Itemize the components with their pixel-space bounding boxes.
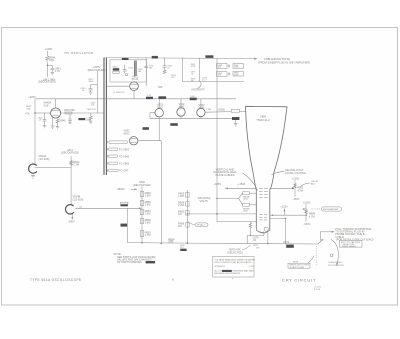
wire accel to astig: [270, 215, 307, 216]
wire CRT cathode drop: [267, 231, 269, 244]
node date code: [314, 287, 322, 292]
wire left vertical to V814A: [34, 99, 36, 164]
tube V845A: [44, 101, 61, 118]
wire HV output: [205, 111, 231, 114]
node external supply note: [335, 227, 373, 241]
potentiometer R868 ASTIG: [303, 200, 316, 226]
svg-text:TO V842: TO V842: [119, 154, 130, 158]
svg-text:4.7K: 4.7K: [55, 69, 61, 73]
wire cathode to C872: [270, 218, 287, 245]
svg-text:10M: 10M: [168, 240, 173, 244]
svg-text:6U8: 6U8: [44, 103, 49, 107]
svg-text:1.5M: 1.5M: [178, 194, 184, 198]
wire output right: [61, 112, 104, 114]
node title TYPE 564A: [30, 278, 82, 282]
svg-text:+3500: +3500: [218, 107, 226, 111]
wire junction bus left: [128, 242, 188, 245]
node +125V astig feed: [280, 204, 288, 215]
svg-text:-150V: -150V: [303, 222, 310, 226]
potentiometer HV ADJ callout: [188, 222, 208, 227]
node diagram ref mark: [232, 278, 234, 281]
oscillator tank box: [110, 60, 146, 82]
inductor L841: [43, 62, 55, 82]
svg-text:82K: 82K: [49, 58, 54, 62]
switch SW870 arm: [318, 239, 323, 244]
svg-text:C866: C866: [207, 109, 212, 111]
svg-text:(REAR PANEL): (REAR PANEL): [342, 245, 357, 248]
node TA arrow: [25, 106, 36, 115]
svg-text:T5640-31-2: T5640-31-2: [256, 118, 270, 122]
svg-text:5642: 5642: [199, 106, 205, 110]
svg-text:C846 250: C846 250: [87, 109, 97, 111]
svg-text:.01: .01: [252, 238, 256, 242]
wire CRT grid line vertical: [216, 58, 218, 222]
wire bottom bus: [187, 242, 317, 245]
inductor L846: [64, 108, 75, 114]
capacitor C813: [81, 85, 98, 92]
svg-text:+ 150: + 150: [77, 207, 83, 209]
node +325V decoupled osc feed: [88, 65, 106, 72]
resistor R813 label: [89, 79, 95, 83]
svg-text:+125V: +125V: [303, 200, 311, 204]
svg-text:3.9M: 3.9M: [145, 203, 151, 207]
resistor chain R840: [140, 187, 151, 243]
node bar above V832: [143, 127, 149, 130]
svg-text:.001: .001: [218, 67, 222, 69]
capacitor C862 box: [207, 109, 246, 112]
wire grid left: [35, 112, 50, 114]
svg-text:560K: 560K: [89, 81, 94, 83]
svg-text:56V2: 56V2: [124, 132, 131, 136]
wire cathode down: [133, 91, 135, 99]
node unblanking text: [258, 57, 310, 64]
node -150V label: [68, 214, 75, 223]
svg-text:ACCEL COATING: ACCEL COATING: [285, 171, 306, 175]
CRT grid dashes: [259, 188, 268, 197]
svg-text:+325V: +325V: [28, 95, 36, 99]
wire HV secondary rail: [104, 98, 236, 100]
svg-text:R810: R810: [113, 66, 119, 68]
node power switch circle: [328, 254, 345, 267]
svg-text:PLATE CABLES: PLATE CABLES: [216, 173, 235, 177]
svg-text:HV OSCILLATOR: HV OSCILLATOR: [65, 51, 94, 55]
tube V812: [130, 74, 139, 90]
svg-text:3.9M: 3.9M: [145, 221, 151, 225]
CRT V859 envelope: [246, 106, 288, 230]
svg-text:(1.2BV P-P): (1.2BV P-P): [114, 92, 125, 94]
svg-text:(SCALE ILLUM): (SCALE ILLUM): [289, 266, 304, 269]
CRT deflection plate dashes: [259, 215, 267, 220]
svg-text:(DECOUPLED): (DECOUPLED): [61, 151, 79, 155]
svg-text:(FOR DETAILS SEE CKT DIAG): (FOR DETAILS SEE CKT DIAG): [336, 237, 374, 241]
svg-text:TO V862: TO V862: [119, 162, 130, 166]
tube V814B: [65, 195, 83, 214]
svg-text:READINGS MAY VARY: READINGS MAY VARY: [233, 270, 255, 273]
svg-text:(SELECTED): (SELECTED): [227, 250, 243, 254]
wire V814B output: [75, 207, 140, 209]
wire grid entry: [217, 221, 256, 223]
ground: [89, 92, 93, 94]
node -3500V arrow: [117, 187, 138, 191]
svg-text:3.9M: 3.9M: [145, 212, 151, 216]
inductor L812 bar: [78, 117, 90, 121]
svg-text:A: A: [172, 277, 174, 281]
wire first anode feed: [214, 182, 257, 189]
capacitor C808 box: [217, 64, 230, 69]
resistor R808 box: [217, 72, 230, 77]
wire divider: [181, 58, 183, 82]
svg-text:470K: 470K: [234, 67, 239, 69]
node HV OSCILLATOR title: [65, 51, 94, 55]
wire unblanking arrowhead: [254, 58, 257, 60]
svg-text:1434: 1434: [190, 96, 194, 98]
CRT base: [256, 227, 270, 233]
node deflection note text: [213, 167, 237, 177]
tube V814A: [29, 154, 50, 173]
node winding bar T801: [170, 123, 178, 126]
wire C840 vertical: [127, 208, 129, 242]
svg-text:INTENSITY: INTENSITY: [214, 266, 225, 268]
svg-text:V859: V859: [260, 115, 267, 119]
svg-text:CRT CIRCUIT: CRT CIRCUIT: [282, 277, 316, 282]
svg-text:CCW: CCW: [249, 266, 254, 268]
svg-text:WITH CONTROLS SET AS INDICATED: WITH CONTROLS SET AS INDICATED:: [214, 261, 252, 264]
svg-text:1.42: 1.42: [147, 95, 151, 97]
svg-text:+325V: +325V: [214, 182, 222, 186]
svg-text:(1/2 6U8): (1/2 6U8): [73, 197, 84, 201]
resistor R809 box: [233, 71, 243, 76]
wire cathode branches: [52, 117, 54, 124]
node graticule lamp box E879: [288, 256, 314, 269]
node geom callout: [301, 181, 318, 186]
svg-text:(DECOUPLED): (DECOUPLED): [88, 68, 106, 72]
wire divider: [199, 58, 201, 82]
ground: [56, 124, 60, 129]
potentiometer R861 GEOM: [291, 176, 304, 200]
svg-text:(FROM SWEEP PLUG-IN UNIT AMPLI: (FROM SWEEP PLUG-IN UNIT AMPLIFIER): [258, 60, 310, 64]
wire top unblanking bus: [104, 58, 255, 59]
tube V832: [124, 129, 138, 145]
resistor R862 bar: [232, 117, 239, 124]
node title CRT CIRCUIT: [282, 277, 316, 282]
svg-text:(DECOUPLED): (DECOUPLED): [38, 80, 56, 84]
tube V852: [155, 99, 164, 117]
node cathode box: [340, 240, 363, 248]
svg-text:470K: 470K: [234, 75, 239, 77]
capacitor C840 bar lower: [121, 224, 128, 227]
wire focus electrode line: [187, 213, 257, 214]
node plate voltage text: [198, 196, 211, 203]
resistor chain R860 divider: [178, 190, 189, 244]
svg-text:(DECOUPLED): (DECOUPLED): [133, 183, 151, 187]
heater winding row 3: [107, 154, 130, 158]
svg-text:-150V: -150V: [293, 197, 300, 201]
svg-text:TO V852: TO V852: [119, 147, 130, 151]
node +325V rail label: [28, 95, 36, 99]
wire deflection lead curve: [243, 173, 258, 191]
svg-text:56K: 56K: [27, 108, 31, 110]
capacitor C847 label: [91, 102, 97, 106]
node intensity leader: [198, 81, 202, 89]
node winding bar: [159, 96, 167, 99]
resistor R814: [70, 160, 80, 167]
ground: [234, 124, 238, 126]
note block: [114, 252, 156, 264]
wire V814A output: [35, 167, 72, 169]
svg-text:-3500V: -3500V: [117, 187, 126, 191]
ground: [43, 126, 47, 128]
svg-text:1M: 1M: [178, 224, 182, 228]
node decoupled label: [38, 80, 56, 84]
node T801 terminal bar: [205, 55, 213, 58]
svg-text:2.2M: 2.2M: [178, 203, 184, 207]
capacitor C870: [252, 236, 259, 243]
ground: [31, 173, 35, 178]
wire +325V rail: [35, 98, 104, 100]
svg-text:36-42: 36-42: [132, 77, 139, 81]
resistor R854 label: [168, 237, 175, 243]
node aquadag leader text: [272, 168, 306, 175]
node voltage readings table: [213, 257, 256, 278]
node +4500 label: [237, 182, 246, 186]
node winding bar: [146, 95, 153, 99]
heater winding row 2: [107, 147, 130, 151]
resistor R871 label: [253, 245, 260, 249]
resistor R858A: [243, 192, 257, 201]
svg-text:BETWEEN INSTRUMENTS: BETWEEN INSTRUMENTS: [214, 273, 240, 275]
capacitor C811 branch: [144, 58, 154, 86]
svg-text:OF PARTS MARKED: OF PARTS MARKED: [117, 260, 142, 264]
svg-text:180K: 180K: [243, 211, 248, 213]
resistor R840 bar: [122, 58, 129, 60]
capacitor C809 box: [233, 64, 243, 69]
svg-text:1M: 1M: [191, 81, 194, 83]
wire osc feed vertical: [96, 71, 98, 113]
svg-text:L846 680: L846 680: [64, 108, 75, 112]
resistor R845: [56, 117, 66, 124]
svg-text:R845: R845: [60, 119, 67, 123]
resistor R846: [87, 109, 97, 123]
inductor L840 label: [133, 180, 151, 187]
wire plate bracket: [216, 193, 242, 205]
resistor R870 bar: [283, 240, 294, 248]
wire V832 output: [138, 141, 162, 245]
switch rotation arc: [331, 240, 338, 267]
node +125V decoupled feed: [45, 47, 53, 51]
tube V842: [177, 99, 185, 116]
svg-text:ADJ: ADJ: [311, 183, 315, 186]
node +3500V label: [218, 107, 226, 111]
resistor R858B: [243, 203, 257, 212]
heater winding row 5: [107, 169, 129, 173]
inductor L814 decoupled: [61, 148, 79, 205]
svg-text:VOLTS: VOLTS: [200, 199, 209, 203]
svg-text:(1/2 6U8): (1/2 6U8): [39, 157, 50, 161]
wire lower rail: [182, 81, 244, 83]
inductor L856 bar below bus: [180, 245, 187, 251]
capacitor C812 branch: [163, 58, 177, 80]
node INTENSITY label: [191, 87, 205, 91]
heater winding row 1 to V832: [107, 141, 128, 144]
inductor L810 core: [135, 61, 144, 77]
svg-text:+TA: +TA: [25, 111, 30, 115]
switch ASTIGMATISM callout: [312, 207, 342, 211]
svg-text:W/ POWER SW: W/ POWER SW: [328, 265, 345, 267]
svg-text:ASTIGMATISM: ASTIGMATISM: [323, 208, 338, 211]
tube V862: [197, 99, 205, 117]
svg-text:460: 460: [158, 85, 163, 89]
capacitor C810: [123, 65, 134, 76]
wire switch contact to note: [320, 231, 334, 241]
wire heater bend: [247, 222, 264, 244]
resistor R810: [113, 66, 120, 73]
capacitor C845: [38, 113, 47, 126]
svg-text:TO CRT: TO CRT: [119, 169, 129, 173]
svg-text:C872: C872: [283, 240, 290, 244]
resistor R841: [46, 56, 56, 63]
capacitor C815 label: [202, 78, 208, 82]
svg-text:+125V: +125V: [280, 204, 288, 208]
capacitor C846: [68, 114, 72, 124]
resistor R870 select note: [227, 245, 250, 254]
svg-text:-150V: -150V: [68, 219, 75, 223]
svg-text:2.7M: 2.7M: [73, 163, 79, 167]
wire rectifier loop: [150, 113, 236, 119]
wire geometry line: [270, 187, 291, 189]
capacitor C840 label bar: [121, 202, 128, 206]
node reg mark: [172, 277, 174, 281]
svg-text:HV ADJ: HV ADJ: [197, 224, 205, 227]
svg-text:+ 4500: + 4500: [237, 182, 246, 186]
svg-text:.01: .01: [191, 74, 194, 76]
svg-text:.001: .001: [218, 75, 222, 77]
svg-text:180K: 180K: [243, 199, 248, 201]
svg-text:VOLTAGE READINGS WERE OBTAINED: VOLTAGE READINGS WERE OBTAINED: [214, 258, 255, 261]
wire plate to rail: [55, 99, 57, 108]
heater winding row 4: [107, 162, 130, 166]
switch linkage dashed: [315, 246, 317, 265]
svg-text:4.7M: 4.7M: [297, 188, 303, 192]
svg-text:1M: 1M: [178, 212, 182, 216]
wire +125V branch: [46, 51, 48, 56]
svg-text:3.9M: 3.9M: [145, 194, 151, 198]
svg-text:4.7M: 4.7M: [309, 214, 315, 218]
svg-text:F.7.66: F.7.66: [314, 289, 321, 291]
capacitor C841 branch: [47, 65, 62, 73]
svg-text:TYPE 564A OSCILLOSCOPE: TYPE 564A OSCILLOSCOPE: [30, 278, 82, 282]
svg-text:4.7M: 4.7M: [145, 233, 151, 237]
node T801 terminal bar: [152, 56, 158, 59]
wire rectifier drop: [158, 119, 160, 141]
ground: [51, 124, 55, 128]
wire arrowhead into divider: [139, 207, 142, 209]
transformer T801 core: [104, 58, 106, 175]
wire grid left to core: [106, 85, 129, 87]
svg-text:+125V: +125V: [292, 176, 300, 180]
resistor R816 column labels: [191, 64, 196, 83]
node bus junction dots: [141, 242, 188, 244]
node winding bar: [190, 96, 197, 100]
node 460 label: [158, 85, 163, 89]
svg-text:4.7M: 4.7M: [191, 66, 196, 68]
node grid return junction: [216, 213, 218, 215]
ground: [51, 72, 55, 74]
svg-text:+125V: +125V: [45, 47, 53, 51]
